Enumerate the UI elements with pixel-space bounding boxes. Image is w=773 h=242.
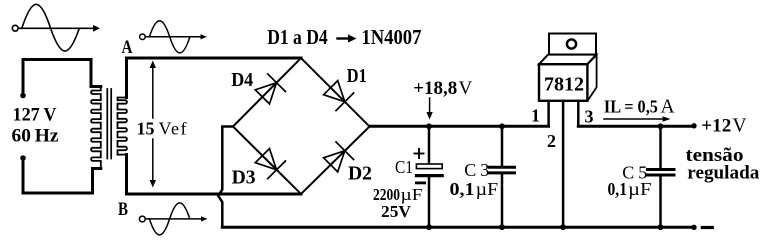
svg-text:+12: +12 [701, 115, 731, 136]
15Vef measuring arrows [150, 61, 156, 188]
svg-text:7812: 7812 [544, 74, 584, 96]
svg-text:D1 a D4: D1 a D4 [267, 25, 328, 49]
7812 mounting hole [567, 39, 576, 48]
wire: output rail from pin 3 to +12V terminal [578, 125, 691, 128]
bottom rail end terminal dot [691, 225, 696, 230]
svg-text:2: 2 [547, 131, 556, 151]
output terminal dot [691, 123, 696, 128]
transformer secondary winding [118, 98, 127, 155]
svg-text:A: A [122, 38, 134, 58]
pin 2 wire [562, 101, 565, 227]
svg-text:µF: µF [476, 179, 499, 199]
wire: bottom rail [222, 226, 691, 229]
svg-text:0,1: 0,1 [450, 179, 475, 199]
svg-text:D4: D4 [231, 69, 253, 91]
regulator 7812: tab [549, 34, 596, 55]
wire: left vertex stub + vertical with crossover kink + corner to bottom rail [218, 127, 233, 228]
wire: DC+ rail from bridge to pin 1 [370, 125, 549, 128]
secondary loop wire: top rail from A to bridge [127, 58, 302, 98]
svg-text:3: 3 [585, 107, 594, 127]
svg-text:2200: 2200 [373, 185, 400, 204]
svg-text:B: B [118, 200, 128, 220]
svg-text:25V: 25V [381, 202, 411, 221]
IL current arrow [604, 116, 671, 122]
pin 1 wire [547, 101, 550, 126]
transformer primary winding [91, 87, 101, 169]
svg-text:60 Hz: 60 Hz [12, 126, 59, 146]
svg-text:D2: D2 [348, 163, 372, 185]
capacitor C3 [499, 123, 505, 129]
title arrow [338, 34, 357, 42]
transformer core [107, 89, 111, 159]
svg-text:C1: C1 [395, 157, 413, 177]
7812 body front face [539, 64, 587, 101]
+18,8V pointer arrow [426, 98, 432, 120]
svg-text:+18,8: +18,8 [413, 78, 457, 99]
svg-text:D3: D3 [232, 167, 256, 189]
diode D1 [324, 81, 354, 111]
diode D4 [255, 74, 285, 104]
svg-text:1N4007: 1N4007 [361, 25, 421, 49]
AC source loop wire [23, 60, 101, 194]
svg-text:V: V [733, 115, 747, 136]
capacitor C1 (electrolytic) [426, 123, 432, 129]
diode D3 [255, 149, 285, 179]
C1 minus sign [416, 181, 424, 184]
svg-text:1: 1 [531, 105, 540, 125]
svg-text:Vef: Vef [159, 119, 187, 139]
pin 3 wire [577, 101, 580, 126]
source terminal dots [20, 93, 26, 99]
svg-text:V: V [459, 78, 473, 99]
svg-text:0,1: 0,1 [608, 179, 628, 199]
svg-text:regulada: regulada [687, 163, 760, 184]
diode D2 [324, 142, 354, 172]
capacitor C5 [658, 123, 664, 129]
svg-text:IL = 0,5: IL = 0,5 [604, 97, 658, 117]
svg-text:127 V: 127 V [13, 105, 58, 125]
source waveform symbol (circle, axis arrow, sine) [12, 4, 100, 51]
svg-text:15: 15 [137, 119, 155, 139]
node A waveform symbol [140, 21, 207, 53]
bridge diamond wires [233, 58, 370, 194]
7812 body top face [539, 55, 596, 65]
minus terminal label [702, 226, 712, 229]
svg-text:D1: D1 [347, 65, 367, 87]
node B waveform symbol [139, 203, 207, 235]
svg-text:A: A [661, 97, 675, 118]
C1 plus sign [415, 149, 424, 158]
7812 body right face [587, 55, 596, 101]
secondary loop wire: bottom rail from B to bridge [127, 155, 302, 195]
svg-text:µF: µF [628, 179, 652, 199]
svg-text:µF: µF [401, 185, 423, 204]
